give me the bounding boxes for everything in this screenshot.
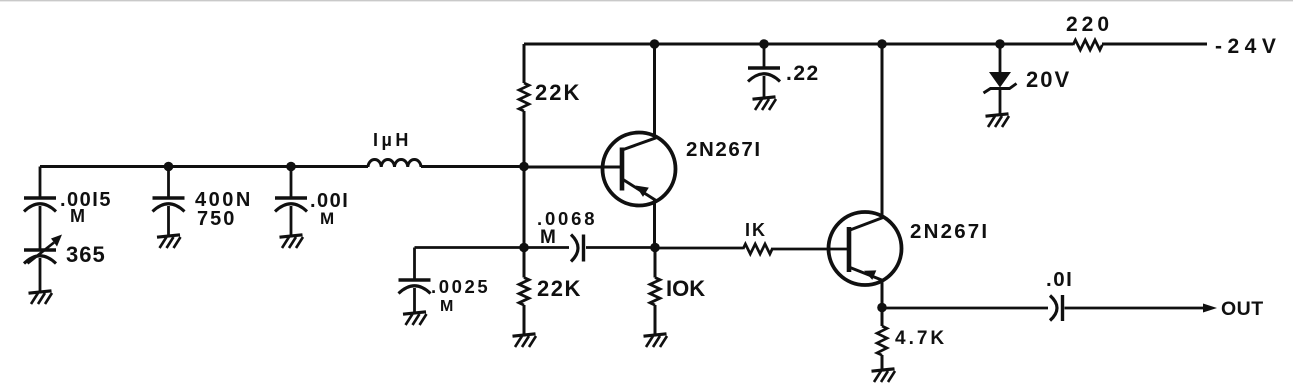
junction Q2 emitter node <box>877 303 887 313</box>
wire top supply rail <box>524 43 1207 46</box>
svg-text:220: 220 <box>1066 13 1113 36</box>
ground under R3 <box>644 334 668 347</box>
svg-text:.0I: .0I <box>1046 268 1073 291</box>
ground under CR1 <box>986 114 1010 127</box>
resistor R3 10K <box>650 248 705 335</box>
diode CR1 zener 20V <box>984 44 1072 114</box>
transistor Q1 2N2671 <box>603 133 762 206</box>
svg-text:.0068: .0068 <box>537 208 597 229</box>
svg-text:M: M <box>70 206 85 226</box>
svg-text:IOK: IOK <box>666 276 705 301</box>
resistor R5 4.7K <box>877 308 947 370</box>
capacitor C1 .0015M <box>24 167 112 227</box>
inductor L1 1uH <box>368 160 421 167</box>
wire Q1 base feed <box>524 166 620 169</box>
capacitor C7 .22 <box>748 44 820 97</box>
wire Q2 emitter down <box>881 280 884 308</box>
junction node (.001 tap) <box>286 162 296 172</box>
junction rail at Q2 collector <box>877 39 887 49</box>
svg-text:IµH: IµH <box>373 130 412 150</box>
svg-text:750: 750 <box>197 208 236 230</box>
wire Q1 collector up <box>653 44 656 138</box>
ground under C4 <box>280 235 304 248</box>
junction Q1 base node <box>519 162 529 172</box>
svg-text:M: M <box>540 227 556 248</box>
ground under C2 <box>29 291 53 304</box>
resistor R1 22K upper <box>519 44 581 167</box>
wire Q1 emitter down <box>653 200 656 248</box>
svg-text:20V: 20V <box>1026 67 1071 92</box>
wire main input bus <box>40 165 524 168</box>
resistor R6 220 <box>1066 13 1113 50</box>
svg-text:M: M <box>320 209 334 228</box>
junction rail at zener <box>995 39 1005 49</box>
svg-text:IK: IK <box>745 220 767 240</box>
junction node (400N tap) <box>164 162 174 172</box>
transistor Q2 2N2671 <box>829 212 990 285</box>
svg-text:.0025: .0025 <box>431 276 490 297</box>
wire Q2 collector up <box>881 44 884 219</box>
ground under C7 <box>753 97 777 110</box>
svg-text:OUT: OUT <box>1221 298 1264 320</box>
variable capacitor C2 365 <box>24 206 106 291</box>
svg-text:.00I5: .00I5 <box>60 189 112 211</box>
svg-text:4.7K: 4.7K <box>895 328 947 349</box>
junction Q1 emitter node <box>650 243 660 253</box>
capacitor C8 .01 coupling <box>1046 268 1073 321</box>
ground under C5 <box>403 312 427 325</box>
svg-text:M: M <box>440 298 453 315</box>
wire bottom bias bus <box>415 246 656 249</box>
scan edge top <box>0 0 1293 2</box>
svg-text:365: 365 <box>66 242 106 267</box>
arrow output <box>1203 304 1217 313</box>
svg-text:2N267I: 2N267I <box>686 138 762 161</box>
svg-text:2N267I: 2N267I <box>910 220 989 243</box>
svg-text:22K: 22K <box>535 80 581 105</box>
capacitor C3 400N 750 <box>153 167 253 236</box>
svg-text:.22: .22 <box>786 62 820 85</box>
capacitor C5 .0025M branch <box>399 248 491 316</box>
capacitor C6 .0068M coupling <box>537 208 597 262</box>
junction rail at C7 <box>759 39 769 49</box>
svg-text:22K: 22K <box>537 276 582 301</box>
wire 22K node to lower node <box>523 167 526 248</box>
capacitor C4 .001M <box>275 167 349 236</box>
ground under R2 <box>513 334 537 347</box>
wire output <box>882 307 1205 310</box>
resistor R2 22K lower <box>519 248 582 335</box>
junction lower bias node <box>519 243 529 253</box>
junction rail at Q1 collector <box>650 39 660 49</box>
ground under R5 <box>872 369 896 382</box>
svg-text:-24V: -24V <box>1215 35 1281 58</box>
resistor R4 1K <box>655 220 847 254</box>
ground under C3 <box>157 235 181 248</box>
